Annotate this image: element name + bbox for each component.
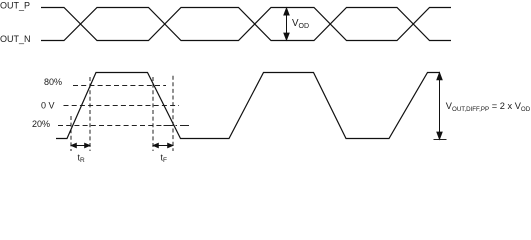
- svg-text:VOUT,DIFF,PP = 2 x VOD: VOUT,DIFF,PP = 2 x VOD: [446, 101, 531, 113]
- svg-text:tF: tF: [161, 153, 168, 165]
- svg-text:0 V: 0 V: [41, 100, 55, 110]
- svg-text:OUT_N: OUT_N: [0, 34, 31, 44]
- svg-text:80%: 80%: [44, 77, 62, 87]
- svg-text:20%: 20%: [32, 119, 50, 129]
- svg-text:VOD: VOD: [292, 18, 309, 30]
- svg-text:tR: tR: [78, 153, 86, 165]
- svg-text:OUT_P: OUT_P: [0, 0, 30, 10]
